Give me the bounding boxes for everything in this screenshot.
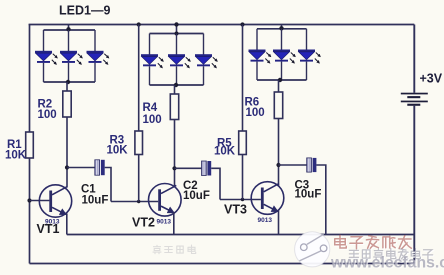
resistor R6	[274, 92, 282, 119]
node group2 top junction	[175, 32, 179, 36]
watermark text dianzifashaoyou (drawn glyphs)	[335, 235, 413, 249]
LED LED6	[195, 34, 217, 86]
wire left rail lower (R1 to base, feedback)	[29, 158, 31, 264]
node group2 rail junction	[174, 22, 178, 26]
LED group 2 frame: wire top	[150, 33, 204, 35]
wire VT1 emitter down	[66, 214, 68, 235]
node group1 top junction	[66, 27, 70, 31]
wire LED group 2 bottom	[150, 84, 204, 86]
wire VT3 emitter down	[278, 211, 280, 235]
wire right battery rail upper	[413, 25, 415, 93]
wire VT1 base lead	[30, 200, 50, 202]
svg-text:10K: 10K	[5, 150, 27, 162]
wire R4 to VT2 collector	[174, 120, 176, 188]
svg-text:www.elecfans.com: www.elecfans.com	[330, 255, 444, 272]
battery B1 3V	[401, 93, 428, 106]
node group3 bottom junction	[278, 78, 282, 82]
LED LED2	[60, 30, 82, 82]
wire right battery rail lower	[413, 106, 415, 264]
svg-text:9013: 9013	[258, 217, 273, 224]
svg-text:LED1—9: LED1—9	[59, 4, 110, 18]
wire R3 feed	[138, 25, 140, 132]
transistor Q1 VT1	[39, 185, 71, 217]
resistor R1	[26, 132, 34, 158]
wire group3 to R6	[278, 80, 280, 92]
node C1 left junction	[65, 165, 69, 169]
resistor R3	[135, 131, 143, 155]
node C3 left junction	[276, 163, 280, 167]
svg-text:R4: R4	[143, 102, 158, 114]
svg-text:10K: 10K	[107, 145, 129, 157]
node VT1 base junction	[27, 198, 31, 202]
LED group 3 frame: wire top	[257, 28, 307, 30]
wire emitter ground rail	[67, 234, 415, 236]
wire LED group 1 bottom	[44, 81, 96, 83]
wire bottom feedback line	[30, 263, 415, 265]
wire LED group 3 bottom	[257, 79, 307, 81]
node R5 top	[240, 22, 244, 26]
node group3 top junction	[279, 26, 283, 30]
resistor R4	[170, 94, 178, 120]
wire left rail upper (to R1)	[29, 24, 31, 132]
LED LED3	[87, 30, 109, 82]
svg-text:10K: 10K	[214, 146, 236, 158]
transistor Q3 VT3	[251, 182, 284, 215]
watermark text gray overlay (drawn glyphs)	[349, 249, 433, 261]
wire group1 to R2	[66, 82, 68, 91]
svg-text:10uF: 10uF	[295, 189, 322, 201]
LED LED7	[249, 29, 271, 80]
svg-text:VT2: VT2	[132, 216, 155, 230]
node group2 bottom junction	[174, 83, 178, 87]
wire R3 to base node	[138, 155, 140, 202]
wire group2 to R4	[174, 85, 176, 94]
resistor R5	[239, 131, 247, 155]
node R3 bottom junction	[137, 200, 140, 203]
svg-text:VT1: VT1	[37, 222, 60, 236]
svg-text:100: 100	[143, 114, 162, 126]
LED LED4	[141, 34, 163, 86]
transistor Q2 VT2	[149, 184, 182, 217]
node R5 bottom junction	[241, 198, 244, 201]
svg-text:10uF: 10uF	[82, 195, 109, 207]
wire R6 to VT3 collector	[278, 119, 280, 186]
wire R2 to VT1 collector	[66, 117, 68, 188]
node R3 top	[137, 22, 141, 26]
LED LED1	[35, 30, 57, 82]
wire top power rail	[29, 24, 415, 26]
svg-text:10uF: 10uF	[183, 190, 210, 202]
svg-text:9013: 9013	[157, 219, 172, 226]
wire R5 feed	[242, 25, 244, 132]
wire VT2 emitter down	[173, 212, 175, 235]
wire feed stub group 1	[68, 25, 70, 31]
svg-text:100: 100	[38, 109, 57, 121]
wire R5 to base node	[242, 155, 244, 200]
watermark logo	[295, 232, 330, 267]
capacitor C3	[279, 158, 326, 235]
wire feed stub group 3	[281, 25, 283, 29]
wire C2 to VT3 base	[220, 199, 261, 201]
svg-text:100: 100	[246, 107, 265, 119]
LED LED5	[168, 34, 190, 86]
resistor R2	[63, 91, 71, 117]
watermark faint text center (drawn glyphs)	[153, 245, 196, 254]
svg-text:+3V: +3V	[420, 72, 443, 86]
capacitor C1	[67, 160, 111, 202]
svg-text:VT3: VT3	[224, 203, 247, 217]
wire C1 to VT2 base	[111, 201, 158, 203]
node C2 left junction	[172, 166, 176, 170]
LED group 1 frame: wire top	[44, 29, 96, 31]
wire feed stub group 2	[176, 25, 178, 34]
LED LED9	[298, 29, 320, 80]
LED LED8	[273, 29, 295, 80]
node group1 bottom junction	[66, 80, 70, 84]
capacitor C2	[175, 161, 221, 200]
